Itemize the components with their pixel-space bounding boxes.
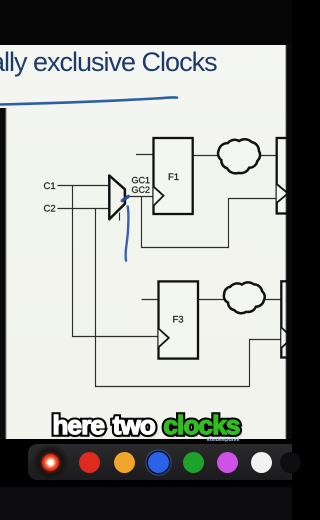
wire C1 branch down (73, 186, 159, 337)
blue hand-drawn underline (0, 90, 200, 115)
wire F1 D input stub (136, 154, 154, 156)
wire mux select stub (119, 213, 121, 221)
flip-flop upper-right (partial) (277, 138, 297, 214)
node GC2 label (132, 187, 150, 193)
wire F3 Q to cloud to lower right flip-flop (198, 299, 281, 301)
node C2 label (44, 205, 55, 212)
mux U1 (109, 176, 125, 220)
swatch selected red (42, 454, 59, 471)
node GC1 label (132, 177, 150, 183)
cloud combinational logic (lower) (224, 282, 265, 313)
selected red swatch glow plate (33, 445, 68, 479)
top black bar (0, 0, 292, 45)
right black bar (285, 44, 293, 439)
cloud combinational logic (upper) (218, 139, 260, 173)
wire C1 to mux (58, 185, 110, 187)
swatch blue (148, 452, 169, 473)
wire F1 Q to cloud to right flip-flop (193, 155, 277, 157)
title: ally exclusive Clocks (0, 47, 217, 78)
swatch red (79, 452, 100, 473)
swatch white (251, 452, 272, 473)
white slide background (0, 44, 292, 439)
flip-flop F1 (154, 138, 193, 214)
swatch magenta (217, 452, 238, 473)
bottom lighter band (0, 487, 292, 520)
wire C2 branch down (96, 209, 282, 387)
watermark (198, 437, 248, 443)
flip-flop F3 (159, 281, 199, 358)
caption: here two clocks (0, 409, 292, 411)
wire gated clock branch to right flip-flop (142, 197, 277, 248)
wire F3 D input stub (142, 299, 159, 301)
wire C2 to mux (58, 208, 110, 210)
node C1 label (44, 182, 55, 189)
bottom black area (0, 439, 292, 520)
blue pen dot on mux output (122, 196, 128, 200)
swatch green (183, 452, 204, 473)
swatch orange (114, 452, 135, 473)
swatch black (280, 452, 301, 473)
flip-flop lower-right (partial) (281, 281, 301, 357)
toolbar (28, 444, 292, 480)
left black bar (0, 108, 7, 440)
blue pen scribble line (126, 206, 129, 260)
wire mux output to F1 clock (125, 196, 154, 198)
circuit schematic svg (0, 44, 292, 440)
